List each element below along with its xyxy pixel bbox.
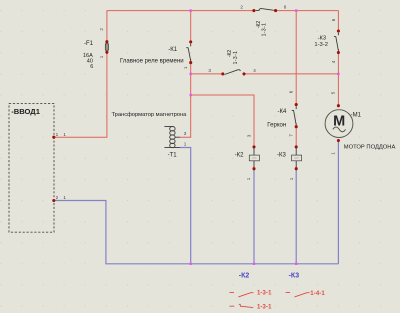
svg-text:-К2: -К2 <box>235 152 244 158</box>
wire K1 to node row <box>190 63 192 95</box>
svg-text:-К2: -К2 <box>239 272 250 279</box>
reed switch K4 Геркон <box>267 90 297 137</box>
cross-ref contact K3 1-4-1 <box>286 291 326 297</box>
wire node row y74 left <box>191 73 223 75</box>
svg-text:1-3-2: 1-3-2 <box>314 42 328 48</box>
svg-text:-К3: -К3 <box>318 35 327 41</box>
svg-text:2: 2 <box>99 28 104 31</box>
svg-text:-F1: -F1 <box>84 41 94 47</box>
svg-text:-К4: -К4 <box>278 109 287 115</box>
wire motor to bus <box>337 141 339 264</box>
svg-text:-М1: -М1 <box>351 113 362 119</box>
svg-text:-К3: -К3 <box>277 152 286 158</box>
svg-text:МОТОР ПОДДОНА: МОТОР ПОДДОНА <box>344 145 396 151</box>
svg-text:-Т1: -Т1 <box>168 152 178 158</box>
cross-ref contact K2 1-3-1 second <box>230 304 273 311</box>
junction node bus at K3 <box>295 263 297 265</box>
wire K1 column from top bus <box>190 11 192 42</box>
svg-text:4: 4 <box>253 68 256 73</box>
wire K2 coil to bus <box>253 169 255 264</box>
wire top bus left segment <box>107 10 254 12</box>
svg-text:1-3-1: 1-3-1 <box>262 23 268 37</box>
svg-text:Главное реле времени: Главное реле времени <box>120 59 184 65</box>
transformer T1 (Трансформатор магнетрона) <box>112 112 188 158</box>
svg-text:1: 1 <box>183 66 188 69</box>
svg-text:-К1: -К1 <box>168 47 177 53</box>
svg-text:1-3-1: 1-3-1 <box>257 305 272 311</box>
svg-text:1: 1 <box>99 55 104 58</box>
junction node at K4 top <box>295 9 297 11</box>
svg-text:3: 3 <box>246 134 251 137</box>
svg-text:1-4-1: 1-4-1 <box>310 291 325 297</box>
junction node motor branch <box>337 73 339 75</box>
wire branch to K2 coil <box>191 95 254 147</box>
wire K4 column <box>295 11 297 105</box>
fuse F1 <box>83 28 109 70</box>
svg-text:Трансформатор магнетрона: Трансформатор магнетрона <box>112 112 188 118</box>
svg-text:5: 5 <box>331 91 336 94</box>
wire ВВОД1 pin2 to bottom bus <box>54 201 339 264</box>
wire K3 coil to bus <box>295 169 297 264</box>
relay contact K3 1-3-2 <box>314 18 340 63</box>
svg-text:-ВВОД1: -ВВОД1 <box>11 107 41 116</box>
svg-text:2: 2 <box>240 5 243 10</box>
wire L1: ВВОД1 pin1 to fuse column <box>54 11 107 138</box>
junction node K2 branch <box>190 94 192 96</box>
svg-text:4: 4 <box>331 60 336 63</box>
switch contact 3-4 on node row <box>208 50 256 76</box>
svg-text:-К3: -К3 <box>289 272 300 279</box>
node pin 2 of ВВОД1 <box>52 195 66 202</box>
junction node at K1 top <box>190 9 192 11</box>
svg-text:6: 6 <box>289 90 294 93</box>
svg-text:1: 1 <box>56 132 59 137</box>
svg-text:Геркон: Геркон <box>267 123 286 129</box>
svg-text:1: 1 <box>289 177 294 180</box>
svg-text:6: 6 <box>90 64 93 70</box>
svg-text:1: 1 <box>331 152 336 155</box>
node pin 1 of ВВОД1 <box>52 132 66 139</box>
wire right column below K3 contact <box>337 53 339 74</box>
motor M1 МОТОР ПОДДОНА <box>325 91 395 155</box>
wire K4 to K3 coil <box>295 127 297 147</box>
relay contact K1 (Главное реле времени) <box>120 40 192 69</box>
wire top bus right segment <box>276 10 339 12</box>
svg-text:2: 2 <box>56 195 59 200</box>
relay coil K2 <box>235 134 260 180</box>
svg-text:3: 3 <box>184 131 187 136</box>
junction node bus at K2 <box>253 263 255 265</box>
relay coil K3 <box>277 145 302 180</box>
svg-text:1-3-1: 1-3-1 <box>257 291 272 297</box>
svg-text:1: 1 <box>246 177 251 180</box>
cross-ref contact K2 1-3-1 <box>230 291 273 297</box>
wire node row y74 right <box>244 73 338 75</box>
svg-text:7: 7 <box>289 134 294 137</box>
svg-text:1: 1 <box>63 132 66 137</box>
svg-text:6: 6 <box>284 5 287 10</box>
wire to motor <box>337 74 339 106</box>
svg-text:1: 1 <box>63 195 66 200</box>
wire to transformer tap <box>180 95 191 137</box>
svg-text:1: 1 <box>184 142 187 147</box>
svg-text:3: 3 <box>208 68 211 73</box>
svg-text:6: 6 <box>331 18 336 21</box>
svg-text:1-3-1: 1-3-1 <box>233 51 239 65</box>
terminal box -ВВОД1 <box>9 104 54 233</box>
switch contact 2-6 on top bus <box>240 5 286 37</box>
wire right column upper <box>337 11 339 31</box>
wire N: transformer pin1 to bottom bus <box>180 148 191 264</box>
junction node K1 bottom row <box>190 73 192 75</box>
junction node bus at T1 <box>190 263 192 265</box>
